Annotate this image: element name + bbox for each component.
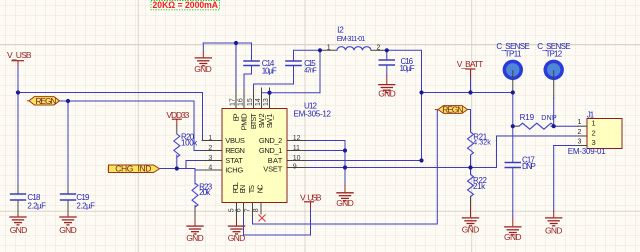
svg-text:GND: GND <box>545 225 563 235</box>
svg-text:17: 17 <box>229 98 236 106</box>
svg-text:6: 6 <box>236 208 243 212</box>
svg-text:3: 3 <box>577 139 581 146</box>
svg-text:GND: GND <box>59 225 77 235</box>
svg-text:16: 16 <box>237 98 244 106</box>
svg-text:TP11: TP11 <box>505 49 522 58</box>
svg-text:SW_1: SW_1 <box>265 113 274 128</box>
svg-text:2.2µF: 2.2µF <box>27 202 46 211</box>
svg-text:100k: 100k <box>181 139 198 148</box>
svg-text:5: 5 <box>229 208 236 212</box>
svg-text:2: 2 <box>377 44 381 51</box>
svg-text:DNP: DNP <box>541 115 557 122</box>
svg-text:8: 8 <box>253 208 260 212</box>
svg-text:TP12: TP12 <box>546 49 563 58</box>
svg-text:GND: GND <box>186 233 204 243</box>
svg-text:EN: EN <box>238 185 247 194</box>
svg-text:GND: GND <box>10 225 28 235</box>
svg-text:9: 9 <box>293 163 297 170</box>
svg-text:2.2µF: 2.2µF <box>76 202 95 211</box>
svg-text:VSET: VSET <box>263 164 282 173</box>
svg-text:V_BATT: V_BATT <box>457 59 484 69</box>
svg-text:1: 1 <box>208 135 212 142</box>
svg-text:10µF: 10µF <box>400 64 415 73</box>
svg-text:12: 12 <box>293 135 301 142</box>
svg-text:REGN: REGN <box>35 96 56 106</box>
svg-text:V_USB: V_USB <box>7 50 32 60</box>
svg-text:R19: R19 <box>520 113 535 122</box>
svg-text:2: 2 <box>577 129 581 136</box>
svg-text:DNP: DNP <box>522 162 536 171</box>
svg-text:GND: GND <box>228 233 246 243</box>
svg-text:3: 3 <box>208 155 212 162</box>
svg-text:14: 14 <box>255 98 262 106</box>
svg-text:4.32k: 4.32k <box>473 140 491 147</box>
svg-text:21k: 21k <box>473 182 486 191</box>
svg-text:GND_1: GND_1 <box>259 146 282 155</box>
svg-text:20k: 20k <box>199 188 211 197</box>
svg-text:GND: GND <box>462 224 480 234</box>
svg-text:13: 13 <box>263 98 270 106</box>
svg-text:2: 2 <box>208 145 212 152</box>
svg-text:ICHG: ICHG <box>225 165 243 174</box>
svg-text:15: 15 <box>247 98 254 106</box>
svg-text:10: 10 <box>293 155 301 162</box>
svg-text:1: 1 <box>327 44 331 51</box>
svg-text:4: 4 <box>208 164 212 171</box>
svg-text:EM-309-01: EM-309-01 <box>568 147 607 156</box>
svg-text:STAT: STAT <box>225 156 243 165</box>
svg-text:3: 3 <box>592 138 596 147</box>
svg-text:20KΩ = 2000mA: 20KΩ = 2000mA <box>153 0 219 11</box>
svg-text:GND: GND <box>336 198 354 208</box>
svg-text:NC: NC <box>256 184 265 193</box>
svg-text:10µF: 10µF <box>262 66 277 75</box>
svg-text:1: 1 <box>577 119 581 126</box>
svg-text:VDD33: VDD33 <box>166 110 189 120</box>
svg-text:GND_2: GND_2 <box>259 136 282 145</box>
svg-text:VBUS: VBUS <box>225 136 245 145</box>
svg-text:PMID: PMID <box>239 113 248 130</box>
svg-text:EM-311-01: EM-311-01 <box>337 36 366 43</box>
svg-text:2: 2 <box>592 128 596 137</box>
svg-text:L2: L2 <box>337 26 344 35</box>
svg-text:11: 11 <box>293 145 300 152</box>
svg-text:V_USB: V_USB <box>300 192 322 202</box>
svg-text:GND: GND <box>504 232 522 242</box>
svg-text:EM-305-12: EM-305-12 <box>294 110 332 119</box>
svg-text:47nF: 47nF <box>304 67 317 74</box>
svg-text:1: 1 <box>592 119 596 128</box>
svg-text:REGN: REGN <box>225 146 245 155</box>
svg-text:GND: GND <box>378 89 396 99</box>
svg-text:7: 7 <box>245 208 252 212</box>
svg-text:REGN: REGN <box>442 104 463 114</box>
svg-text:CHG_IND: CHG_IND <box>115 163 151 173</box>
svg-text:GND: GND <box>194 64 212 74</box>
